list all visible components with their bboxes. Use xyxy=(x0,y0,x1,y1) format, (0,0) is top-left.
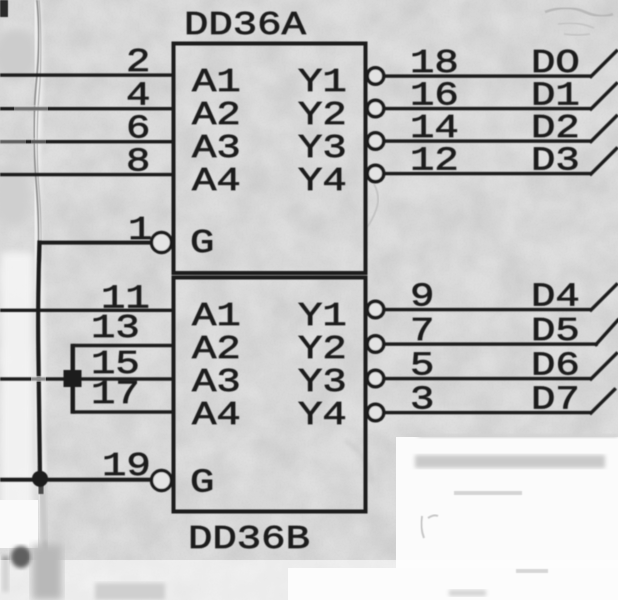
output bubble Y3 (U2 pin5) xyxy=(367,370,383,386)
svg-text:D3: D3 xyxy=(531,143,580,181)
svg-text:D6: D6 xyxy=(531,348,580,386)
output bubble Y1 (U1 pin18) xyxy=(367,68,383,84)
wire pin3 to D7 xyxy=(384,411,593,414)
svg-text:DD36A: DD36A xyxy=(184,7,307,45)
svg-text:13: 13 xyxy=(91,310,140,348)
svg-text:D7: D7 xyxy=(531,382,580,420)
bus entry slash D7 xyxy=(591,390,615,414)
bus entry slash D5 xyxy=(596,320,618,345)
inversion bubble G (U2) xyxy=(152,471,172,491)
wire pin14 to D2 xyxy=(384,139,593,142)
svg-text:1: 1 xyxy=(128,212,152,250)
tie bracket wire joining pins 13-15-17 xyxy=(71,344,76,414)
output bubble Y2 (U2 pin7) xyxy=(367,336,383,352)
wire pin15 to A3 (U2) xyxy=(0,377,175,380)
svg-text:5: 5 xyxy=(410,348,434,386)
wire pin8 to A4 (U1) xyxy=(0,173,175,176)
wire pin12 to D3 xyxy=(384,172,593,175)
wire pin2 to A1 (U1) xyxy=(0,73,175,76)
output bubble Y3 (U1 pin14) xyxy=(367,133,383,149)
wire pin17 to A4 (U2) xyxy=(73,410,176,413)
bus entry slash D1 xyxy=(591,84,617,110)
svg-text:A4: A4 xyxy=(192,397,241,435)
svg-text:D4: D4 xyxy=(531,279,580,317)
svg-text:DD36B: DD36B xyxy=(188,521,310,559)
output bubble Y4 (U2 pin3) xyxy=(367,404,383,420)
output bubble Y4 (U1 pin12) xyxy=(367,165,383,181)
svg-text:12: 12 xyxy=(410,143,459,181)
svg-text:3: 3 xyxy=(410,382,434,420)
wire pin18 to D0 xyxy=(384,74,593,77)
svg-text:2: 2 xyxy=(126,44,150,82)
bus entry slash D2 xyxy=(591,116,617,142)
bottom & right white-out regions xyxy=(396,437,618,577)
svg-text:G: G xyxy=(190,465,214,503)
IC body U2 (buffer DD36B) xyxy=(174,278,366,512)
svg-text:A4: A4 xyxy=(192,163,241,201)
svg-text:D5: D5 xyxy=(531,313,580,351)
bus entry slash D0 xyxy=(591,51,617,77)
wire pin6 to A3 (U1) xyxy=(0,140,175,143)
bus entry slash D6 xyxy=(591,354,617,380)
svg-text:Y4: Y4 xyxy=(298,163,347,201)
svg-text:19: 19 xyxy=(102,448,151,486)
wire pin4 to A2 (U1) xyxy=(0,107,175,110)
output bubble Y1 (U2 pin9) xyxy=(367,301,383,317)
wire pin11 to A1 (U2) xyxy=(0,309,175,312)
bus entry slash D3 xyxy=(591,149,617,175)
wire pin9 to D4 xyxy=(384,308,593,311)
junction pins 13-15-17 xyxy=(64,370,82,387)
svg-text:G: G xyxy=(190,225,214,263)
IC body U1 (buffer DD36A) xyxy=(174,44,366,274)
wire pin7 to D5 xyxy=(384,342,599,345)
vertical wire joining G enables (pin1 to pin19) xyxy=(38,243,40,479)
bus entry slash D4 xyxy=(591,285,617,311)
junction pin19 / G tie xyxy=(32,471,48,487)
svg-text:Y4: Y4 xyxy=(298,397,347,435)
output bubble Y2 (U1 pin16) xyxy=(367,100,383,116)
wire pin5 to D6 xyxy=(384,377,593,380)
wire pin16 to D1 xyxy=(384,107,593,110)
inversion bubble G (U1) xyxy=(152,233,172,253)
svg-text:7: 7 xyxy=(410,313,434,351)
svg-text:8: 8 xyxy=(126,144,150,182)
svg-text:17: 17 xyxy=(91,376,140,414)
svg-text:9: 9 xyxy=(410,279,434,317)
wire pin13 to A2 (U2) xyxy=(73,344,176,347)
wire pin19 to G (U2) xyxy=(0,478,151,482)
wire pin1 to G (U1) xyxy=(38,241,151,245)
